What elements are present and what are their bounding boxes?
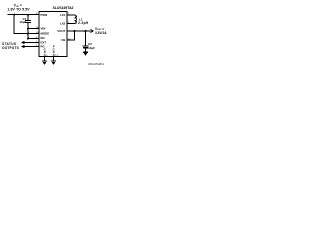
svg-text:LX1: LX1 bbox=[60, 13, 66, 17]
svg-text:10µF: 10µF bbox=[19, 20, 26, 24]
svg-text:LX2: LX2 bbox=[60, 22, 66, 26]
svg-text:MODE: MODE bbox=[41, 32, 50, 36]
svg-text:UDG-05138-1: UDG-05138-1 bbox=[88, 62, 105, 66]
svg-text:FB: FB bbox=[61, 38, 65, 42]
svg-text:3.3V/1A: 3.3V/1A bbox=[95, 31, 107, 35]
svg-text:OUTPUTS: OUTPUTS bbox=[2, 46, 19, 50]
svg-text:VIN: VIN bbox=[41, 27, 46, 31]
svg-text:SLUS169TA2: SLUS169TA2 bbox=[53, 6, 74, 10]
svg-text:1.8V TO 5.5V: 1.8V TO 5.5V bbox=[7, 8, 30, 12]
svg-text:2.2µH: 2.2µH bbox=[78, 21, 89, 25]
svg-text:PVIN: PVIN bbox=[41, 13, 48, 17]
svg-text:VOUT: VOUT bbox=[57, 29, 65, 33]
svg-text:10µF: 10µF bbox=[88, 46, 95, 50]
